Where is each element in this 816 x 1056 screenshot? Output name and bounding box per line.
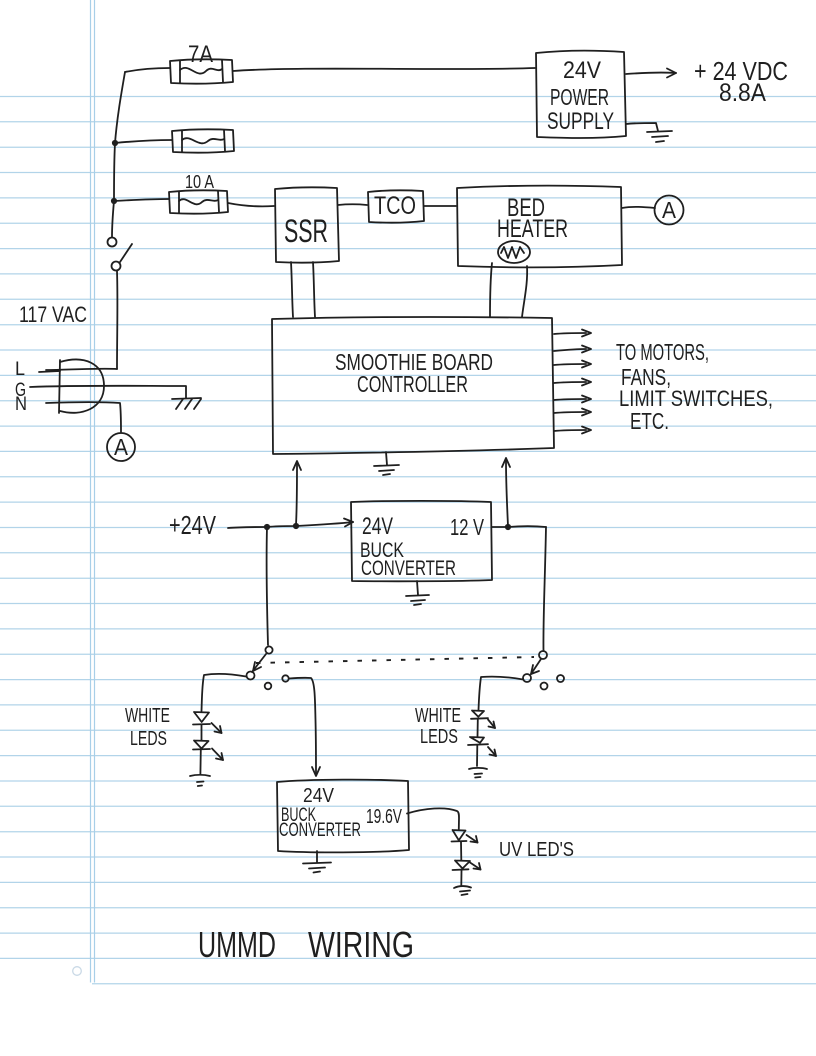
svg-text:117 VAC: 117 VAC [19,302,87,327]
svg-text:LEDS: LEDS [420,726,458,748]
svg-text:WHITE: WHITE [415,705,461,727]
svg-text:CONVERTER: CONVERTER [361,557,456,580]
svg-text:UMMD: UMMD [198,924,276,965]
svg-text:WHITE: WHITE [125,705,170,727]
svg-text:8.8A: 8.8A [719,79,766,107]
svg-text:TCO: TCO [374,192,416,220]
svg-text:HEATER: HEATER [497,215,568,243]
svg-text:SSR: SSR [284,213,328,249]
svg-text:CONVERTER: CONVERTER [279,820,361,841]
svg-text:A: A [662,197,677,223]
svg-text:TO MOTORS,: TO MOTORS, [616,339,709,365]
svg-text:L: L [15,359,25,380]
svg-text:24V: 24V [303,785,335,807]
svg-text:POWER: POWER [550,84,609,110]
svg-text:ETC.: ETC. [630,408,669,434]
svg-text:CONTROLLER: CONTROLLER [357,371,468,397]
svg-text:7A: 7A [188,41,213,68]
svg-text:19.6V: 19.6V [366,806,402,828]
svg-text:+24V: +24V [169,510,216,540]
svg-text:LEDS: LEDS [130,728,167,750]
svg-text:SUPPLY: SUPPLY [547,108,614,135]
svg-text:WIRING: WIRING [308,924,414,965]
svg-text:24V: 24V [563,57,601,84]
svg-text:UV LED'S: UV LED'S [499,839,574,861]
svg-text:24V: 24V [362,513,393,540]
svg-text:10 A: 10 A [185,172,214,192]
svg-text:N: N [15,394,27,415]
svg-text:A: A [114,434,129,460]
svg-text:12 V: 12 V [450,514,484,540]
